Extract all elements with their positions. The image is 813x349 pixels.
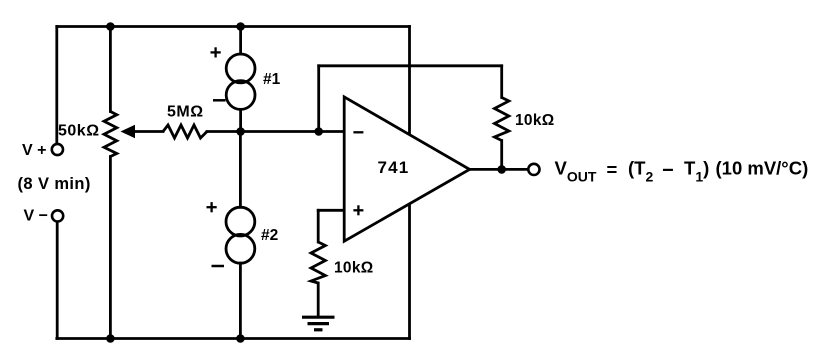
junction dot bottom rail / sensor #2	[236, 334, 245, 343]
wire V+ terminal to top rail	[55, 27, 58, 144]
wire node A to sensor #2	[239, 132, 242, 208]
wire feedback riser from inverting node	[317, 66, 320, 132]
terminal V+	[52, 144, 63, 155]
wire 50k pot branch upper	[109, 27, 112, 112]
current source sensor #2 upper circle	[226, 207, 255, 236]
wire 50k pot branch lower	[109, 157, 112, 339]
svg-text:V −: V −	[24, 208, 48, 225]
terminal VOUT	[528, 164, 539, 175]
sensor #2 minus polarity mark	[212, 265, 225, 268]
svg-text:V +: V +	[22, 142, 46, 159]
wire V- terminal to bottom rail	[56, 222, 59, 339]
resistor R 5M body	[163, 125, 207, 138]
wire 10k grounding resistor to ground	[317, 283, 320, 316]
junction dot output node	[497, 165, 506, 174]
svg-text:50kΩ: 50kΩ	[58, 123, 100, 140]
wire op-amp pin 3 stub	[318, 209, 344, 212]
svg-text:741: 741	[378, 158, 410, 177]
svg-text:−: −	[662, 160, 674, 182]
wire node A to inverting node	[241, 130, 319, 133]
wire inverting node to op-amp pin 2	[319, 130, 345, 133]
junction dot top rail / pot	[106, 22, 115, 31]
svg-text:(T2: (T2	[628, 158, 653, 185]
svg-text:=: =	[607, 159, 618, 180]
wire right supply drop (V-)	[408, 27, 411, 339]
svg-text:#2: #2	[261, 227, 278, 244]
svg-text:10kΩ: 10kΩ	[515, 112, 555, 129]
resistor R feedback 10k body	[495, 98, 509, 141]
sensor #1 plus polarity mark	[211, 47, 221, 57]
svg-text:(10 mV/°C): (10 mV/°C)	[716, 158, 809, 179]
resistor 50k potentiometer body	[104, 112, 117, 157]
current source sensor #1 lower circle	[226, 81, 255, 110]
ground symbol	[302, 317, 335, 330]
terminal V-	[52, 210, 63, 221]
svg-text:10kΩ: 10kΩ	[334, 260, 374, 277]
junction node A (sensors / 5M)	[236, 127, 245, 136]
op-amp inverting input mark pin 2	[353, 131, 363, 133]
wire pin 3 down to 10k grounding resistor	[317, 210, 320, 242]
wire top supply rail	[57, 25, 410, 28]
current source sensor #1 upper circle	[226, 54, 255, 83]
svg-text:5MΩ: 5MΩ	[167, 104, 204, 121]
wire 5M resistor to node A	[207, 130, 241, 133]
wire feedback into 10k resistor	[500, 66, 503, 98]
wire top rail to sensor #1	[239, 27, 242, 55]
potentiometer wiper arrow	[121, 125, 136, 139]
wire feedback top run	[319, 64, 502, 67]
svg-text:T1): T1)	[684, 158, 709, 185]
wire sensor #1 to node A	[239, 109, 242, 131]
resistor R ground 10k body	[311, 242, 325, 283]
sensor #1 minus polarity mark	[213, 99, 226, 102]
svg-text:VOUT: VOUT	[555, 158, 597, 185]
wire 10k feedback resistor to output node	[500, 141, 503, 170]
svg-text:(8 V min): (8 V min)	[18, 175, 91, 193]
sensor #2 plus polarity mark	[207, 202, 217, 212]
junction dot top rail / sensor #1	[236, 22, 245, 31]
label VOUT equation	[555, 158, 809, 185]
svg-text:#1: #1	[263, 71, 281, 88]
wire wiper arm to 5M resistor	[134, 130, 163, 133]
junction dot bottom rail / pot	[106, 334, 115, 343]
op-amp U1 741 triangle	[344, 97, 469, 241]
op-amp non-inverting input mark pin 3	[353, 205, 363, 215]
current source sensor #2 lower circle	[226, 234, 255, 263]
wire op-amp output to terminal	[470, 168, 529, 171]
junction dot inverting node	[314, 127, 323, 136]
wire bottom supply rail	[57, 337, 410, 340]
wire sensor #2 to bottom rail	[239, 263, 242, 338]
